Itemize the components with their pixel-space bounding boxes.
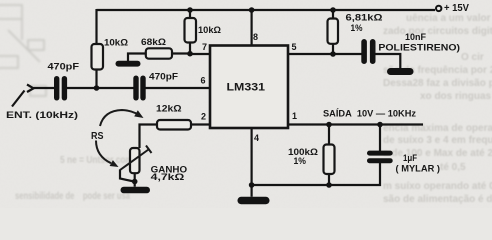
wire C4 top lead — [379, 125, 381, 152]
svg-text:RS: RS — [91, 131, 104, 142]
wire pin 4 — [251, 128, 253, 197]
svg-text:68kΩ: 68kΩ — [141, 37, 166, 47]
wire R4 bottom lead — [332, 44, 334, 54]
svg-text:1%: 1% — [351, 23, 363, 33]
junction node output R6 — [326, 122, 332, 128]
capacitor C1 470pF plates — [54, 76, 67, 101]
resistor R4 6.81k body — [328, 19, 339, 44]
junction node R4 top rail — [330, 7, 336, 13]
svg-text:4: 4 — [254, 133, 259, 143]
svg-text:O cir: O cir — [461, 52, 484, 63]
svg-text:8: 8 — [253, 32, 258, 42]
svg-text:( MYLAR ): ( MYLAR ) — [396, 164, 441, 174]
junction node pin 4 ground — [249, 182, 255, 188]
ground bar at R3 left — [116, 61, 141, 67]
ground bar at C3 — [387, 68, 414, 75]
svg-text:são de alimentação é de: são de alimentação é de — [383, 194, 492, 205]
svg-text:6,81kΩ: 6,81kΩ — [346, 13, 383, 23]
wire R3 right lead — [172, 52, 190, 54]
IC U1 LM331 body — [210, 46, 288, 129]
svg-text:470pF: 470pF — [149, 72, 179, 82]
resistor R1 10k body — [92, 44, 104, 70]
potentiometer P1 wiper arrow — [120, 146, 152, 171]
svg-text:uência a um valor q: uência a um valor q — [406, 13, 492, 24]
junction node pin 5 — [330, 51, 336, 57]
wire R5 left lead to pot — [140, 125, 158, 149]
wire +15V top rail — [97, 9, 436, 11]
RS arrow lower arc — [96, 141, 119, 168]
svg-text:xo dos ringuas mais: xo dos ringuas mais — [420, 91, 492, 102]
svg-text:470pF: 470pF — [48, 62, 80, 72]
svg-text:1μF: 1μF — [403, 153, 417, 163]
svg-text:5: 5 — [292, 42, 297, 52]
potentiometer P1 body — [130, 148, 140, 173]
wire C1 to C2 — [66, 87, 135, 89]
svg-text:( POLIESTIRENO): ( POLIESTIRENO) — [372, 43, 460, 53]
bleed-through ghost text right column — [383, 13, 492, 205]
wire R1 bottom lead — [95, 70, 97, 89]
svg-text:+ 15V: + 15V — [444, 2, 469, 14]
wire output pin 1 — [288, 123, 423, 125]
junction node R6 bottom — [326, 182, 332, 188]
resistor R2 10k body — [185, 18, 197, 43]
svg-text:zado por circuitos digitais: zado por circuitos digitais — [383, 26, 492, 37]
wire pin 5 — [288, 53, 362, 55]
svg-text:12kΩ: 12kΩ — [156, 103, 182, 113]
ground bar at potentiometer — [121, 187, 151, 194]
svg-text:10kΩ: 10kΩ — [104, 37, 128, 47]
terminal +15V circle — [436, 6, 441, 11]
wire R6 top lead — [328, 125, 330, 145]
wire input probe diagonal — [12, 91, 25, 107]
wire C2 to pin 6 — [145, 87, 211, 89]
wire R2 bottom lead — [189, 42, 191, 54]
resistor R5 12k body — [157, 120, 191, 130]
ground bar at pin 4 — [238, 197, 270, 204]
svg-text:Dessa28 faz a divisão po: Dessa28 faz a divisão po — [383, 78, 492, 89]
wire pin 2 — [191, 123, 210, 125]
wire R1 top lead — [95, 9, 97, 44]
wire pot wiper hook — [120, 170, 134, 182]
svg-text:1: 1 — [292, 111, 297, 121]
svg-text:de suíxo 3 e 4 em frequê: de suíxo 3 e 4 em frequê — [383, 135, 492, 146]
svg-text:sensibilidade de pode ser u: sensibilidade de pode ser usa — [15, 191, 130, 202]
wire R6 bottom lead — [328, 174, 330, 185]
svg-text:1%: 1% — [294, 156, 307, 166]
junction node at R1 bottom — [94, 85, 100, 91]
wire R4 top lead — [332, 10, 334, 19]
svg-text:10nF: 10nF — [405, 32, 426, 42]
capacitor C2 470pF plates — [133, 76, 145, 101]
svg-text:5 ne = Untsor com: 5 ne = Untsor com — [60, 155, 133, 166]
svg-text:SAÍDA 10V — 10KHz: SAÍDA 10V — 10KHz — [323, 109, 416, 120]
svg-text:té 0,5: té 0,5 — [440, 162, 466, 173]
resistor R3 68k body — [146, 48, 172, 58]
junction node pot bottom — [132, 179, 138, 185]
svg-text:10kΩ: 10kΩ — [198, 25, 221, 35]
junction node output C4 — [377, 122, 383, 128]
capacitor C4 1uF plates — [367, 151, 393, 164]
input arrowhead — [27, 85, 34, 93]
capacitor C3 10nF plates — [361, 39, 375, 64]
wire bottom rail — [252, 163, 380, 185]
svg-text:4,7kΩ: 4,7kΩ — [151, 172, 185, 182]
wire pin 8 to rail — [251, 10, 253, 46]
svg-text:m suíxo operando até 0,5: m suíxo operando até 0,5 — [383, 181, 492, 192]
junction node R2 top rail — [187, 7, 193, 13]
svg-text:6: 6 — [201, 76, 206, 86]
wire pot bottom lead — [134, 173, 136, 187]
bleed-through ghost text bottom-left — [15, 155, 133, 202]
wire C3 right to ground — [376, 54, 401, 68]
svg-text:LM331: LM331 — [227, 82, 266, 94]
svg-text:ENT. (10kHz): ENT. (10kHz) — [6, 110, 78, 121]
resistor R6 100k body — [324, 145, 335, 175]
svg-text:2: 2 — [201, 112, 206, 122]
bleed-through ghost schematic top-left — [0, 5, 46, 96]
wire R3 left lead — [128, 54, 146, 62]
junction node pin 8 rail — [249, 7, 255, 13]
wire R2 top lead — [189, 10, 191, 18]
RS arrow upper arc — [100, 110, 144, 126]
svg-text:a de 100 e Max de até 2: a de 100 e Max de até 2 — [383, 148, 492, 159]
svg-text:7: 7 — [202, 42, 207, 52]
wire pin 7 — [190, 53, 210, 55]
junction node pin 7 — [187, 51, 193, 57]
wire +15V terminal lead — [434, 9, 436, 11]
wire input to C1 — [34, 87, 56, 89]
